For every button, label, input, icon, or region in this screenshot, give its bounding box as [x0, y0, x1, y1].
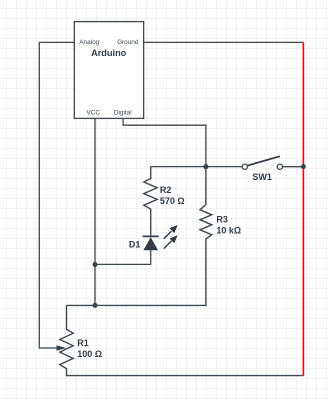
node: VCC column at bottom horizontal — [93, 303, 98, 308]
switch SW1 right contact — [277, 164, 282, 169]
Arduino U1 body — [74, 22, 143, 119]
resistor R3 (zigzag) from rail junction down to bottom horizontal — [67, 167, 212, 306]
resistor R2 (zigzag) with top stub — [144, 167, 157, 238]
potentiometer R1 wiper arrowhead — [57, 345, 67, 351]
wire: Arduino Ground pin to top of red rail — [144, 41, 304, 43]
wire: LED bottom left to VCC column — [95, 250, 151, 264]
switch SW1 lever (open) — [247, 156, 280, 165]
LED D1 cathode bar — [143, 235, 159, 237]
svg-text:R3: R3 — [216, 215, 228, 225]
node: LED return on VCC column — [93, 262, 98, 267]
LED D1 light emission arrow (lower) — [164, 235, 178, 249]
svg-text:D1: D1 — [129, 239, 141, 249]
LED D1 triangle (anode, pointing up) — [143, 237, 158, 250]
wire: rail from R2 top corner to switch left contact — [151, 166, 243, 168]
svg-text:Analog: Analog — [79, 39, 99, 46]
node: switch output on red rail — [301, 164, 306, 169]
potentiometer R1 (zigzag) down to bottom return wire — [60, 305, 304, 375]
svg-text:570 Ω: 570 Ω — [160, 196, 185, 206]
svg-text:SW1: SW1 — [252, 172, 272, 182]
svg-text:100 Ω: 100 Ω — [77, 349, 102, 359]
wire: Arduino Analog pin down-left to R1 wiper — [39, 42, 74, 348]
svg-text:Ground: Ground — [117, 39, 139, 46]
svg-text:VCC: VCC — [87, 109, 101, 116]
wire: switch right contact to red rail — [283, 166, 304, 168]
wire: Arduino VCC pin down to bottom junction — [94, 118, 96, 305]
switch SW1 left contact — [242, 164, 247, 169]
svg-text:R1: R1 — [77, 338, 89, 348]
svg-text:Arduino: Arduino — [91, 48, 127, 58]
svg-text:10 kΩ: 10 kΩ — [216, 225, 241, 235]
node: rail junction at R3 top — [203, 164, 208, 169]
LED D1 light emission arrow (upper) — [164, 225, 178, 239]
svg-text:Digital: Digital — [114, 109, 132, 116]
svg-text:R2: R2 — [160, 185, 172, 195]
wire: Arduino Digital pin down and right to switch rail — [123, 118, 206, 166]
wire: +V supply rail (red, right side) — [302, 42, 304, 375]
